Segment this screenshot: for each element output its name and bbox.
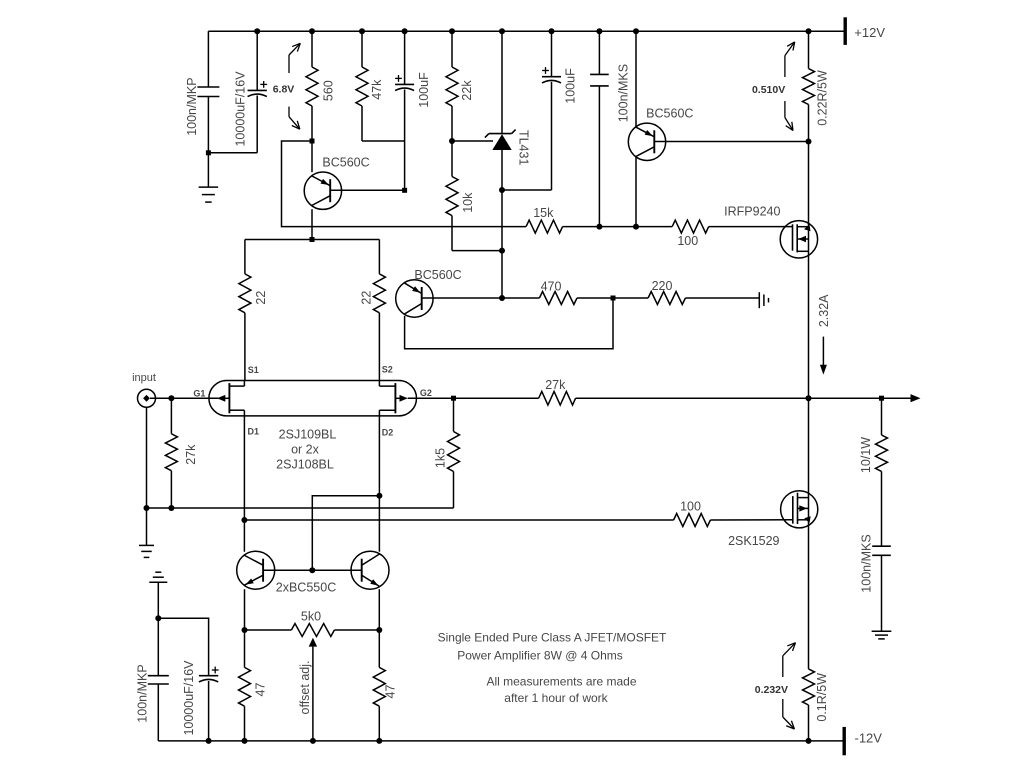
wire shared base — [263, 569, 362, 571]
capacitor 10000uF/16V (top) — [256, 31, 258, 90]
wire D2 drain — [378, 416, 380, 552]
JFET J1 left (gate G1) — [228, 383, 230, 413]
MOSFET 2SK1529 (N-channel) — [781, 491, 818, 528]
svg-text:6.8V: 6.8V — [273, 84, 295, 96]
svg-text:Power Amplifier 8W @ 4 Ohms: Power Amplifier 8W @ 4 Ohms — [457, 649, 623, 663]
0.232V measure bracket — [783, 643, 796, 656]
svg-text:560: 560 — [321, 80, 335, 101]
svg-text:5k0: 5k0 — [301, 610, 321, 624]
resistor 100 (2SK gate stopper) — [674, 514, 711, 527]
svg-text:D2: D2 — [382, 427, 394, 437]
capacitor 100n/MKP (bottom) — [157, 618, 159, 675]
svg-text:100n/MKP: 100n/MKP — [185, 77, 199, 135]
resistor 47 (left) — [239, 667, 251, 706]
wire — [502, 189, 552, 191]
svg-text:S1: S1 — [248, 365, 259, 375]
svg-text:100uF: 100uF — [417, 72, 431, 108]
resistor 27k (input load) — [170, 398, 172, 434]
node rail junctions — [254, 28, 260, 34]
ground (input) — [139, 544, 154, 546]
resistor 47k — [361, 31, 363, 67]
svg-text:or 2x: or 2x — [291, 443, 320, 457]
resistor 220 — [613, 297, 648, 299]
svg-text:22: 22 — [254, 291, 268, 305]
node sense junction — [806, 139, 812, 145]
svg-text:100: 100 — [677, 234, 698, 248]
JFET J2 right (gate G2) — [394, 383, 396, 413]
wire base — [422, 297, 502, 299]
svg-text:All measurements are made: All measurements are made — [486, 675, 636, 689]
svg-text:G1: G1 — [193, 388, 205, 398]
resistor 0.1R/5W — [803, 669, 815, 705]
wire input shield drop — [146, 407, 148, 545]
svg-text:Single Ended Pure Class A JFET: Single Ended Pure Class A JFET/MOSFET — [438, 631, 667, 645]
resistor 0.22R/5W — [808, 31, 810, 68]
resistor 10/1W — [881, 398, 883, 435]
transistor Q3 BC560C (VAS) — [396, 280, 433, 317]
JFET dual package outline 2SJ109BL — [209, 381, 417, 416]
wire emitters down — [244, 589, 246, 667]
svg-text:27k: 27k — [184, 444, 198, 465]
wiper arrow — [309, 638, 317, 647]
wire +12V top rail — [208, 30, 843, 32]
svg-text:22: 22 — [360, 291, 374, 305]
wire diff sources row — [245, 239, 380, 241]
node junctions — [596, 224, 602, 230]
input terminal — [138, 389, 156, 407]
wire D1 to 2SK gate row — [244, 519, 673, 521]
wire -12V bottom rail — [158, 740, 842, 742]
node output junction — [806, 395, 812, 401]
svg-text:IRFP9240: IRFP9240 — [724, 204, 780, 218]
wire — [208, 152, 257, 154]
svg-text:input: input — [132, 372, 156, 384]
svg-text:27k: 27k — [545, 378, 566, 392]
svg-text:BC560C: BC560C — [414, 268, 461, 282]
svg-text:22k: 22k — [460, 80, 474, 101]
svg-text:100: 100 — [680, 500, 701, 514]
svg-text:100n/MKS: 100n/MKS — [616, 64, 630, 122]
resistor 15k — [526, 220, 563, 233]
svg-text:2SJ108BL: 2SJ108BL — [276, 458, 334, 472]
svg-text:10000uF/16V: 10000uF/16V — [233, 71, 247, 147]
6.8V measure bracket — [289, 43, 300, 55]
resistor 27k (feedback) — [539, 391, 576, 405]
capacitor 100uF (bias) — [404, 31, 406, 84]
resistor 47 (right) — [373, 667, 385, 706]
svg-text:0.510V: 0.510V — [752, 84, 785, 96]
svg-text:0.22R/5W: 0.22R/5W — [815, 70, 829, 126]
wire to output node — [576, 397, 882, 399]
MOSFET IRFP9240 (P-channel) — [780, 221, 817, 258]
svg-text:2SJ109BL: 2SJ109BL — [279, 428, 337, 442]
resistor 470 — [502, 297, 539, 299]
potentiometer 5k0 (offset adj.) — [245, 629, 292, 631]
svg-text:BC560C: BC560C — [322, 156, 369, 170]
svg-text:G2: G2 — [420, 388, 432, 398]
svg-text:-12V: -12V — [855, 730, 883, 745]
svg-text:47: 47 — [383, 685, 397, 699]
TL431 shunt regulator — [501, 31, 503, 133]
resistor 1k5 — [453, 398, 455, 431]
output arrow terminal — [882, 397, 919, 399]
ground (after 220) — [758, 292, 760, 308]
+12V supply terminal — [844, 17, 847, 45]
resistor 22 (left) — [244, 240, 246, 274]
svg-text:220: 220 — [652, 279, 673, 293]
svg-text:2xBC550C: 2xBC550C — [276, 581, 336, 595]
-12V supply terminal — [843, 727, 846, 755]
transistor Q4 BC550C (left current sink) — [237, 551, 275, 589]
svg-text:+12V: +12V — [854, 25, 885, 40]
svg-text:10k: 10k — [461, 192, 475, 213]
svg-text:2SK1529: 2SK1529 — [728, 534, 779, 548]
resistor 22 (right) — [378, 240, 380, 274]
svg-text:100uF: 100uF — [563, 68, 577, 104]
capacitor 100n/MKS — [598, 31, 600, 74]
0.510V measure bracket — [785, 42, 795, 56]
svg-text:47k: 47k — [370, 79, 384, 100]
capacitor 100uF (TL431 bypass) — [551, 31, 553, 76]
svg-text:S2: S2 — [382, 364, 393, 374]
svg-text:TL431: TL431 — [517, 130, 531, 165]
wire ground return row — [147, 507, 454, 509]
wire — [362, 140, 405, 142]
wire collector to feedback node — [405, 298, 613, 349]
wire TL431 ref — [452, 140, 493, 142]
node junction — [611, 296, 616, 301]
ground (negative rail reference) — [149, 581, 167, 583]
svg-text:15k: 15k — [533, 206, 554, 220]
label 2.32A current arrow — [822, 337, 824, 367]
wire emitter feedback row — [282, 141, 527, 227]
capacitor 100n/MKP (top left) — [207, 31, 209, 87]
node junction 22k/10k — [449, 138, 455, 144]
resistor 100 (IRFP gate stopper) — [672, 220, 709, 233]
capacitor 10000uF/16V (bottom) — [158, 618, 208, 675]
svg-text:D1: D1 — [248, 427, 260, 437]
resistor 22k — [451, 31, 453, 67]
wire input to G1 — [150, 397, 218, 399]
transistor Q1 BC560C (input cascode bias) — [310, 139, 315, 144]
transistor Q2 BC560C (current limiter) — [635, 31, 637, 127]
resistor 10k — [446, 177, 458, 216]
svg-text:2.32A: 2.32A — [817, 294, 831, 327]
svg-text:BC560C: BC560C — [646, 106, 693, 120]
svg-text:10000uF/16V: 10000uF/16V — [182, 660, 196, 736]
resistor 560 — [311, 31, 313, 67]
transistor Q5 BC550C (right current sink) — [351, 551, 389, 589]
ground (top left) — [199, 186, 219, 188]
svg-text:47: 47 — [253, 683, 267, 697]
wire base — [330, 189, 404, 191]
svg-text:10/1W: 10/1W — [859, 437, 873, 473]
svg-text:0.232V: 0.232V — [755, 684, 788, 696]
svg-text:offset adj.: offset adj. — [298, 661, 312, 715]
ground (zobel) — [872, 630, 892, 632]
wire collector — [311, 209, 313, 239]
capacitor 100n/MKS (zobel) — [872, 545, 891, 547]
wire D2 to BC550 bases jog — [312, 496, 379, 570]
node junction — [206, 150, 211, 155]
svg-text:470: 470 — [541, 280, 562, 294]
wire — [709, 226, 793, 228]
wire — [563, 226, 673, 228]
svg-text:100n/MKP: 100n/MKP — [136, 664, 150, 722]
wire D1 drain — [243, 416, 245, 552]
svg-text:100n/MKS: 100n/MKS — [859, 534, 873, 592]
wire — [452, 250, 502, 252]
svg-text:0.1R/5W: 0.1R/5W — [815, 673, 829, 722]
svg-text:after 1 hour of work: after 1 hour of work — [504, 691, 608, 705]
svg-text:1k5: 1k5 — [433, 448, 447, 468]
wire G2 to feedback — [408, 397, 539, 399]
node junctions on TL431 line — [499, 187, 505, 193]
